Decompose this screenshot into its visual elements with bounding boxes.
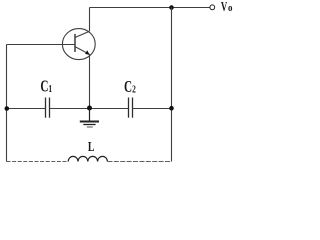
- label C2: [124, 78, 136, 97]
- svg-text:C1: C1: [40, 77, 52, 96]
- capacitor C1: [46, 98, 50, 118]
- wire left vertical: [6, 45, 8, 162]
- svg-text:o: o: [228, 3, 233, 15]
- node junction center (emitter/ground): [87, 106, 92, 111]
- transistor Q1: [62, 8, 95, 109]
- wire base: [7, 44, 76, 46]
- label L: [88, 138, 95, 154]
- wire right vertical: [171, 8, 173, 162]
- ground: [80, 109, 99, 128]
- wire top (collector to output terminal): [90, 7, 210, 9]
- wire middle row right segment: [133, 108, 172, 110]
- node junction top: [169, 5, 174, 10]
- inductor L: [68, 156, 107, 161]
- label C1: [40, 77, 52, 96]
- wire bottom left segment: [7, 161, 69, 163]
- svg-text:C2: C2: [124, 78, 136, 97]
- svg-text:L: L: [88, 138, 95, 154]
- capacitor C2: [129, 98, 133, 118]
- node junction middle-right: [169, 106, 174, 111]
- wire bottom right segment: [107, 161, 171, 163]
- wire middle row left segment: [7, 108, 46, 110]
- label Vo: [221, 0, 233, 14]
- svg-text:V: V: [221, 0, 228, 14]
- terminal Vo (open circle): [210, 5, 215, 10]
- node junction middle-left: [5, 106, 10, 111]
- wire middle row center segment: [50, 108, 129, 110]
